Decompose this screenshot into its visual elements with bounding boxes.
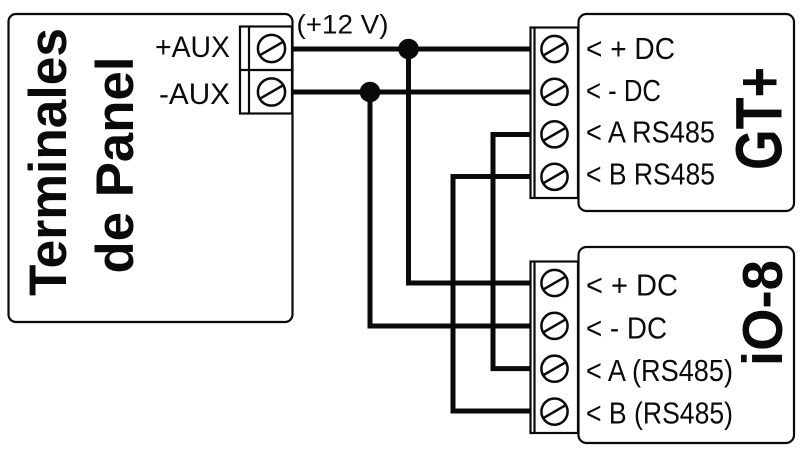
label Terminales de Panel (19, 28, 145, 296)
GT+ screw 2 (541, 79, 567, 105)
svg-text:de Panel: de Panel (86, 57, 145, 274)
GT+ terminal block (531, 28, 579, 199)
wire branch -AUX down to iO-8 -DC (370, 92, 532, 326)
iO-8 screw 2 (541, 313, 567, 339)
wire -AUX to GT+ -DC (292, 90, 532, 95)
svg-text:< B RS485: < B RS485 (586, 158, 715, 192)
junction dot +12V (398, 39, 419, 60)
GT+ screw 3 (541, 121, 567, 147)
iO-8 module box (579, 247, 795, 443)
svg-text:+AUX: +AUX (155, 31, 230, 64)
junction dot -AUX (360, 82, 381, 103)
wire +AUX to GT+ +DC (292, 47, 532, 52)
iO-8 screw 1 (541, 270, 567, 296)
wire B RS485 GT+ to iO-8 (453, 177, 532, 412)
svg-text:-AUX: -AUX (159, 78, 230, 111)
iO-8 screw 3 (541, 356, 567, 382)
svg-text:< A RS485: < A RS485 (586, 116, 715, 150)
svg-text:< - DC: < - DC (586, 312, 667, 346)
svg-text:< A (RS485): < A (RS485) (586, 354, 733, 388)
svg-text:Terminales: Terminales (19, 28, 78, 296)
iO-8 terminal block (531, 262, 579, 434)
svg-text:< - DC: < - DC (586, 74, 661, 108)
iO-8 screw 4 (541, 399, 567, 425)
svg-text:< + DC: < + DC (586, 269, 678, 303)
svg-text:(+12 V): (+12 V) (297, 10, 389, 40)
panel screw +AUX (258, 35, 285, 62)
panel screw -AUX (258, 78, 285, 105)
svg-text:GT+: GT+ (722, 67, 796, 170)
svg-text:iO-8: iO-8 (731, 260, 795, 366)
GT+ screw 1 (541, 36, 567, 62)
GT+ module box (579, 14, 795, 211)
svg-text:< + DC: < + DC (586, 32, 675, 66)
svg-text:< B (RS485): < B (RS485) (586, 397, 733, 431)
panel terminal block (240, 27, 292, 114)
wire branch +12V down to iO-8 +DC (409, 49, 533, 283)
panel box (Terminales de Panel) (9, 14, 293, 322)
wire A RS485 GT+ to iO-8 (493, 135, 532, 369)
GT+ screw 4 (541, 164, 567, 190)
